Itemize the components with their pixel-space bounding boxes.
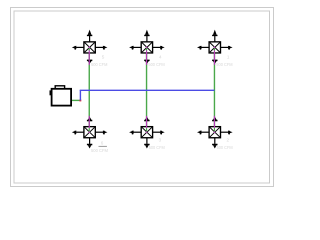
svg-text:4: 4 — [159, 55, 162, 60]
svg-text:500 CFM: 500 CFM — [216, 62, 232, 67]
unit AHU fan — [50, 86, 72, 106]
drawing border outer — [11, 8, 274, 187]
svg-text:500 CFM: 500 CFM — [217, 145, 233, 150]
diffuser D1 (top row, column 3) — [197, 30, 233, 65]
svg-text:500 CFM: 500 CFM — [91, 62, 107, 67]
diffuser D3 (bottom row, column 2) — [129, 116, 165, 149]
svg-text:500 CFM: 500 CFM — [149, 145, 165, 150]
svg-text:2: 2 — [227, 138, 230, 143]
svg-text:1: 1 — [227, 55, 230, 60]
diffuser D6 (bottom row, column 1) — [72, 116, 108, 149]
wire main supply duct riser (blue) — [79, 90, 81, 100]
svg-text:6: 6 — [101, 141, 104, 146]
node duct takeoff junction (red) — [79, 100, 81, 102]
diffuser D5 (top row, column 1) — [72, 30, 108, 65]
wire duct branch column 1 (green) — [88, 47, 90, 132]
svg-text:500 CFM: 500 CFM — [148, 62, 164, 67]
wire unit outlet stub (green) — [71, 99, 80, 101]
svg-text:500 CFM: 500 CFM — [91, 148, 108, 153]
wire duct branch column 3 (green) — [213, 47, 215, 132]
diffuser D4 (top row, column 2) — [129, 30, 165, 65]
svg-text:3: 3 — [159, 138, 162, 143]
wire duct branch column 2 (green) — [146, 47, 148, 132]
drawing border inner — [14, 11, 270, 183]
svg-text:5: 5 — [102, 55, 105, 60]
label diffuser 6 underline — [99, 146, 107, 147]
wire main supply duct run (blue) — [80, 89, 215, 91]
diffuser D2 (bottom row, column 3) — [197, 116, 233, 149]
